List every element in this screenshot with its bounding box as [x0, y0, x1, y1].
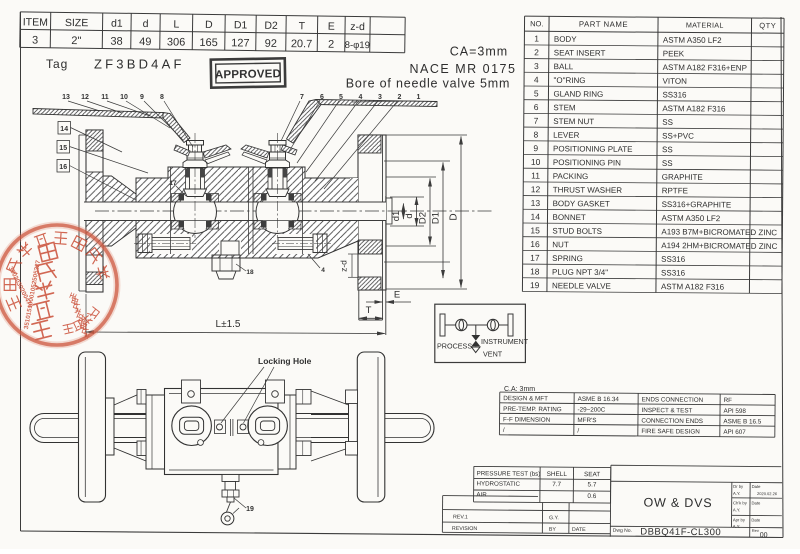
- svg-text:SEAT INSERT: SEAT INSERT: [554, 48, 606, 57]
- schematic needle valve: [471, 335, 480, 346]
- svg-text:CA=3mm: CA=3mm: [450, 45, 508, 59]
- dim D: [460, 137, 462, 288]
- svg-text:SS: SS: [662, 159, 673, 168]
- svg-text:306: 306: [167, 36, 186, 48]
- svg-text:15: 15: [530, 225, 540, 235]
- svg-text:17: 17: [530, 253, 540, 263]
- svg-text:z-d: z-d: [339, 260, 349, 272]
- svg-text:NO.: NO.: [530, 19, 543, 28]
- dim extension lines: [386, 134, 467, 136]
- svg-text:A.Y.: A.Y.: [733, 507, 740, 512]
- body joints: [170, 167, 172, 254]
- cross-section view group: [33, 94, 492, 337]
- ball (item 3) second valve: [256, 191, 299, 234]
- svg-text:STEM NUT: STEM NUT: [553, 117, 594, 126]
- svg-text:CONNECTION ENDS: CONNECTION ENDS: [641, 418, 703, 426]
- svg-text:D2: D2: [418, 212, 429, 224]
- dim d1: [402, 204, 404, 220]
- body bolts: [137, 390, 146, 405]
- svg-text:D: D: [205, 19, 213, 31]
- svg-text:2: 2: [328, 39, 334, 51]
- svg-text:10: 10: [120, 94, 128, 101]
- svg-text:12: 12: [531, 184, 541, 194]
- svg-text:/: /: [503, 427, 505, 434]
- body end cap left: [146, 395, 165, 469]
- svg-text:ASTM A350 LF2: ASTM A350 LF2: [661, 214, 720, 223]
- svg-text:VITON: VITON: [663, 77, 688, 86]
- svg-text:A.Y.: A.Y.: [733, 491, 740, 496]
- svg-text:18: 18: [246, 269, 254, 276]
- needle valve (item 19): [222, 475, 239, 482]
- svg-text:ASTM A350 LF2: ASTM A350 LF2: [663, 36, 722, 45]
- svg-text:6: 6: [534, 102, 539, 112]
- svg-text:2: 2: [534, 47, 539, 57]
- svg-text:ZF3BD4AF: ZF3BD4AF: [94, 57, 185, 72]
- svg-text:MFR'S: MFR'S: [577, 417, 596, 424]
- svg-text:11: 11: [101, 94, 109, 101]
- svg-text:38: 38: [110, 36, 122, 48]
- svg-text:D1: D1: [431, 212, 442, 224]
- svg-text:SHELL: SHELL: [547, 471, 568, 478]
- svg-text:Apr by: Apr by: [733, 517, 746, 522]
- svg-text:14: 14: [530, 212, 540, 222]
- bonnet cavity first: [186, 168, 205, 190]
- svg-text:18: 18: [530, 266, 540, 276]
- svg-text:INSPECT & TEST: INSPECT & TEST: [641, 407, 692, 414]
- bonnet plate valve 2: [266, 160, 290, 168]
- neck left: [114, 391, 146, 461]
- sheet bottom border: [21, 531, 784, 538]
- svg-text:NUT: NUT: [552, 240, 569, 249]
- left flange (item 1 area): [86, 130, 103, 292]
- design spec table: [499, 392, 775, 437]
- svg-text:14: 14: [60, 126, 68, 133]
- svg-text:NEEDLE VALVE: NEEDLE VALVE: [552, 281, 611, 290]
- svg-text:d: d: [143, 18, 149, 30]
- svg-text:E: E: [394, 290, 400, 301]
- svg-text:19: 19: [530, 280, 540, 290]
- svg-text:ASME B 16.5: ASME B 16.5: [723, 418, 761, 425]
- svg-text:REV.1: REV.1: [453, 514, 468, 520]
- locking hole tabs: [215, 420, 226, 434]
- stud bolt right (item 4 leader): [276, 234, 316, 254]
- svg-text:Rev: Rev: [752, 528, 759, 533]
- svg-text:AIR: AIR: [476, 491, 487, 498]
- svg-text:3: 3: [534, 61, 539, 71]
- lever left (item 8): [33, 109, 163, 119]
- svg-text:SS+PVC: SS+PVC: [662, 131, 694, 140]
- dim L: [85, 294, 87, 337]
- svg-text:9: 9: [533, 143, 538, 153]
- svg-text:/: /: [577, 427, 579, 434]
- svg-text:4: 4: [321, 267, 325, 274]
- bonnet circle valve 2: [248, 406, 288, 446]
- svg-text:8-φ19: 8-φ19: [345, 40, 370, 51]
- stud bolt left (item 15/16): [150, 234, 192, 254]
- svg-text:STEM: STEM: [553, 103, 576, 112]
- svg-text:5: 5: [339, 94, 343, 101]
- svg-text:HYDROSTATIC: HYDROSTATIC: [476, 480, 520, 487]
- svg-text:REVISION: REVISION: [452, 526, 478, 532]
- svg-text:D: D: [449, 213, 460, 220]
- svg-text:A194 2HM+BICROMATED ZINC: A194 2HM+BICROMATED ZINC: [661, 241, 777, 251]
- svg-text:L: L: [173, 18, 179, 30]
- svg-text:16: 16: [59, 164, 67, 171]
- svg-text:T: T: [299, 20, 306, 32]
- svg-text:13: 13: [531, 198, 541, 208]
- schematic pipe: [445, 324, 456, 326]
- title block: [610, 465, 783, 539]
- svg-text:Dr by: Dr by: [733, 484, 744, 489]
- svg-text:THRUST WASHER: THRUST WASHER: [553, 185, 623, 195]
- positioning plate wings valve 2 (item 10): [281, 145, 297, 155]
- svg-text:19: 19: [246, 506, 254, 513]
- locking hole 2: [240, 424, 246, 430]
- svg-text:G.Y.: G.Y.: [549, 515, 559, 521]
- svg-text:Date: Date: [751, 517, 761, 522]
- stem (item 6) first: [190, 168, 201, 189]
- svg-text:BODY: BODY: [554, 35, 577, 44]
- svg-text:8: 8: [533, 129, 538, 139]
- svg-text:D1: D1: [234, 19, 248, 31]
- schematic left flange: [440, 314, 445, 336]
- svg-text:d1: d1: [111, 18, 123, 30]
- svg-text:GRAPHITE: GRAPHITE: [662, 173, 703, 182]
- svg-text:d1: d1: [391, 211, 402, 222]
- right flange plate: [358, 135, 386, 290]
- svg-text:Bore of needle valve 5mm: Bore of needle valve 5mm: [346, 77, 510, 91]
- pressure test table: [474, 466, 611, 503]
- svg-text:API 598: API 598: [723, 408, 746, 415]
- schematic box: [435, 304, 526, 362]
- svg-text:LEVER: LEVER: [553, 131, 580, 140]
- svg-text:RF: RF: [724, 397, 733, 404]
- schematic right flange: [508, 314, 513, 336]
- svg-text:ASTM A182 F316+ENP: ASTM A182 F316+ENP: [663, 63, 747, 73]
- parts list table: [522, 16, 784, 293]
- raised face: [386, 198, 392, 224]
- svg-text:"O"RING: "O"RING: [554, 76, 586, 85]
- svg-text:7: 7: [534, 116, 539, 126]
- svg-text:A.Y.: A.Y.: [733, 524, 740, 529]
- left flange outline: [79, 352, 106, 502]
- dim d: [416, 197, 418, 226]
- svg-text:DBBQ41F-CL300: DBBQ41F-CL300: [640, 527, 721, 539]
- svg-text:PACKING: PACKING: [553, 172, 588, 181]
- svg-text:2020.02.26: 2020.02.26: [757, 491, 778, 496]
- svg-text:4: 4: [534, 75, 539, 85]
- svg-text:APPROVED: APPROVED: [215, 68, 281, 81]
- svg-text:FIRE SAFE DESIGN: FIRE SAFE DESIGN: [641, 428, 700, 436]
- locking hole 1: [217, 424, 223, 430]
- svg-text:-29~200C: -29~200C: [578, 406, 606, 413]
- left raised face: [78, 135, 80, 291]
- svg-text:ASME B 16.34: ASME B 16.34: [578, 396, 620, 403]
- svg-text:BODY GASKET: BODY GASKET: [553, 199, 610, 208]
- red company stamp: [0, 225, 117, 345]
- svg-text:15: 15: [59, 145, 67, 152]
- svg-text:5: 5: [534, 88, 539, 98]
- svg-text:BALL: BALL: [554, 62, 574, 71]
- svg-text:2": 2": [71, 35, 81, 47]
- stem nut (item 7) first: [189, 145, 202, 152]
- svg-text:D2: D2: [264, 20, 278, 32]
- svg-text:INSTRUMENT: INSTRUMENT: [481, 337, 529, 346]
- gland assembly (item 5) second: [270, 152, 286, 168]
- revision table: [442, 496, 610, 534]
- svg-text:12: 12: [81, 94, 89, 101]
- neck right: [311, 391, 349, 461]
- svg-text:SS316: SS316: [661, 255, 686, 264]
- stem centerline second: [277, 133, 279, 238]
- svg-text:20.7: 20.7: [291, 38, 313, 50]
- approved stamp: [211, 58, 285, 87]
- left hub taper: [103, 176, 136, 246]
- gland assembly (item 5) first: [187, 152, 203, 168]
- svg-text:7: 7: [300, 94, 304, 101]
- svg-text:Tag: Tag: [46, 57, 68, 71]
- positioning plate wings valve 1 (item 9): [174, 145, 190, 156]
- svg-text:BONNET: BONNET: [552, 213, 586, 222]
- svg-text:127: 127: [231, 37, 250, 49]
- body end cap right: [278, 395, 296, 469]
- svg-text:ENDS CONNECTION: ENDS CONNECTION: [642, 396, 704, 404]
- svg-text:5.7: 5.7: [588, 481, 597, 488]
- svg-text:RPTFE: RPTFE: [662, 186, 688, 195]
- bonnet circle valve 1: [172, 406, 212, 446]
- svg-text:SS316: SS316: [661, 268, 686, 277]
- svg-text:ASTM A182 F316: ASTM A182 F316: [661, 282, 725, 292]
- body center block: [165, 389, 279, 475]
- svg-text:E: E: [328, 21, 335, 33]
- svg-text:92: 92: [265, 38, 277, 50]
- svg-text:4: 4: [359, 94, 363, 101]
- svg-text:DATE: DATE: [572, 527, 586, 533]
- svg-text:PART NAME: PART NAME: [579, 20, 628, 29]
- svg-text:SPRING: SPRING: [552, 254, 583, 263]
- schematic vent branch: [475, 325, 477, 335]
- svg-text:Date: Date: [751, 500, 761, 505]
- stem (item 6) second: [272, 168, 283, 189]
- svg-text:9: 9: [140, 94, 144, 101]
- svg-text:0.6: 0.6: [587, 493, 596, 500]
- svg-text:Ch'k by: Ch'k by: [733, 500, 748, 505]
- bore channel: [84, 202, 386, 221]
- svg-text:OW & DVS: OW & DVS: [643, 496, 712, 511]
- svg-text:SS: SS: [662, 145, 673, 154]
- lever bar left: [30, 414, 230, 443]
- svg-text:3: 3: [32, 34, 38, 46]
- dim D1: [442, 163, 444, 279]
- dimension table: [20, 12, 405, 53]
- right flange outline: [357, 352, 385, 502]
- sheet left border: [20, 12, 22, 531]
- svg-text:F-F DIMENSION: F-F DIMENSION: [503, 416, 551, 423]
- svg-text:7.7: 7.7: [552, 481, 561, 488]
- valve body section: [136, 167, 358, 258]
- lever right: [316, 100, 437, 107]
- svg-text:13: 13: [62, 94, 70, 101]
- schematic ball valve 1: [456, 319, 467, 330]
- svg-text:POSITIONING PIN: POSITIONING PIN: [553, 158, 621, 168]
- svg-text:Date: Date: [752, 484, 762, 489]
- svg-text:8: 8: [160, 94, 164, 101]
- plug NPT (item 18): [219, 241, 241, 255]
- svg-text:2: 2: [398, 94, 402, 101]
- svg-text:SEAT: SEAT: [584, 471, 600, 478]
- schematic ball valve 2: [487, 319, 498, 330]
- dim D2: [429, 179, 431, 245]
- svg-text:T: T: [366, 305, 372, 316]
- svg-text:Dwg No.: Dwg No.: [613, 528, 632, 534]
- svg-text:SS: SS: [662, 118, 673, 127]
- svg-text:GLAND RING: GLAND RING: [553, 90, 603, 99]
- main centerline: [95, 210, 492, 212]
- svg-text:PLUG NPT 3/4": PLUG NPT 3/4": [552, 268, 608, 277]
- svg-text:49: 49: [139, 36, 151, 48]
- svg-text:ASTM A182 F316: ASTM A182 F316: [662, 104, 726, 113]
- svg-text:A193 B7M+BICROMATED ZINC: A193 B7M+BICROMATED ZINC: [661, 227, 777, 237]
- svg-text:d: d: [404, 213, 415, 218]
- svg-text:DESIGN & MFT: DESIGN & MFT: [503, 395, 548, 402]
- svg-text:z-d: z-d: [350, 21, 365, 33]
- svg-text:11: 11: [531, 171, 540, 181]
- sheet right border: [781, 17, 783, 538]
- svg-text:API 607: API 607: [723, 429, 746, 436]
- svg-text:17: 17: [169, 180, 177, 187]
- svg-text:10: 10: [531, 157, 541, 167]
- svg-text:PEEK: PEEK: [663, 49, 685, 58]
- svg-text:NACE MR 0175: NACE MR 0175: [410, 62, 517, 76]
- svg-text:00: 00: [760, 532, 768, 539]
- svg-text:PRE-TEMP. RATING: PRE-TEMP. RATING: [503, 406, 562, 414]
- svg-text:MATERIAL: MATERIAL: [686, 20, 724, 29]
- top tabs with holes: [182, 380, 201, 403]
- svg-text:16: 16: [530, 239, 540, 249]
- outline view group: [30, 352, 434, 525]
- stem centerline first: [194, 133, 196, 238]
- svg-text:L±1.5: L±1.5: [216, 319, 241, 330]
- svg-text:1: 1: [417, 94, 421, 101]
- leader labels 14 15 16: [58, 122, 71, 135]
- svg-text:BY: BY: [549, 527, 557, 533]
- svg-text:165: 165: [199, 37, 218, 49]
- svg-text:ITEM: ITEM: [23, 16, 48, 28]
- svg-text:POSITIONING PLATE: POSITIONING PLATE: [553, 144, 632, 154]
- svg-text:STUD BOLTS: STUD BOLTS: [552, 227, 602, 236]
- right hub hatch: [350, 178, 358, 241]
- svg-text:1: 1: [534, 34, 539, 44]
- svg-text:3: 3: [378, 94, 382, 101]
- svg-text:PRESSURE TEST (bs): PRESSURE TEST (bs): [477, 470, 541, 478]
- svg-text:QTY: QTY: [759, 21, 776, 30]
- svg-text:PROCESS: PROCESS: [437, 342, 472, 351]
- svg-text:SS316: SS316: [662, 90, 687, 99]
- lever bar right: [233, 414, 434, 443]
- stem nut (item 7) second: [271, 145, 284, 152]
- right flange bolts: [346, 390, 358, 404]
- svg-text:SIZE: SIZE: [65, 17, 89, 29]
- bonnet cavity second: [268, 168, 287, 190]
- ball (item 3) first valve: [174, 191, 217, 234]
- svg-text:VENT: VENT: [483, 350, 503, 359]
- svg-text:Locking Hole: Locking Hole: [258, 356, 312, 366]
- svg-text:6: 6: [320, 94, 324, 101]
- svg-text:SS316+GRAPHITE: SS316+GRAPHITE: [662, 200, 732, 210]
- bonnet plate valve 1 (item 14): [183, 160, 207, 168]
